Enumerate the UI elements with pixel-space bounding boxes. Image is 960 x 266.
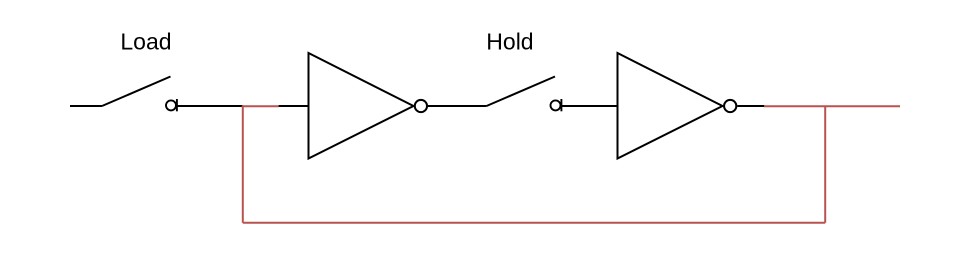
switch SW1 (Load) terminal circle xyxy=(166,100,176,110)
wire (red net Q): feedback bottom run xyxy=(243,222,825,224)
svg-text:Load: Load xyxy=(120,29,171,55)
switch SW1 (Load) terminal tick xyxy=(176,99,178,111)
wire (red net Q): feedback left riser up xyxy=(242,106,244,223)
switch SW1 (Load) left lead wire xyxy=(70,105,102,107)
wire (red net Q): node A horizontal stub xyxy=(242,105,279,107)
inverter U1 bubble xyxy=(415,100,427,112)
inverter U1 triangle xyxy=(309,53,414,159)
wire: Load switch to node A xyxy=(177,105,243,107)
switch SW1 (Load) blade xyxy=(102,77,171,107)
wire: Hold switch to inverter U2 input xyxy=(561,105,617,107)
wire: node A to inverter U1 input xyxy=(279,105,309,107)
inverter U2 bubble xyxy=(724,100,736,112)
wire: U2 output stub (black) xyxy=(737,105,764,107)
svg-text:Hold: Hold xyxy=(486,29,533,55)
wire: U1 output to Hold switch pivot xyxy=(428,105,487,107)
wire (red net Q): output horizontal to right edge xyxy=(764,105,900,107)
switch SW2 (Hold) blade xyxy=(487,77,556,107)
switch SW2 (Hold) terminal circle xyxy=(551,100,561,110)
switch SW2 (Hold) terminal tick xyxy=(560,99,562,111)
wire (red net Q): feedback right riser down xyxy=(824,106,826,223)
inverter U2 triangle xyxy=(618,53,723,159)
